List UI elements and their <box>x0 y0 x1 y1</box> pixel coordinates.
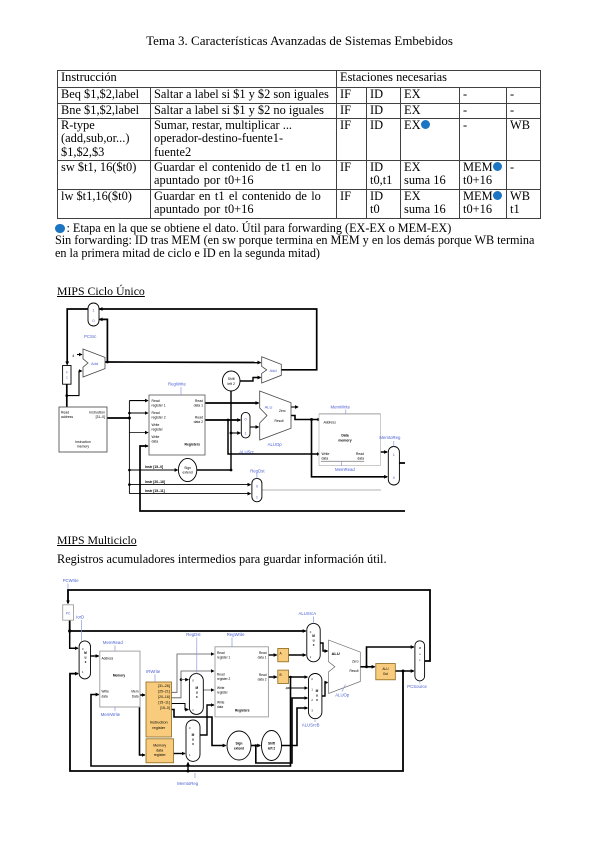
register B <box>278 670 289 683</box>
wire memory data to instruction register <box>140 694 145 696</box>
wire sign extend to ALUSrc mux input 1 <box>230 432 233 435</box>
wire read data 2 to B register <box>268 676 276 678</box>
mux MemtoReg <box>388 447 399 486</box>
svg-text:ALU: ALU <box>332 651 340 656</box>
svg-text:Instr [20–16]: Instr [20–16] <box>145 480 165 484</box>
svg-text:data: data <box>152 440 159 444</box>
mux IorD <box>79 641 90 679</box>
svg-text:4: 4 <box>72 354 74 358</box>
svg-text:x: x <box>192 742 194 746</box>
wire RegDst mux output <box>262 489 381 491</box>
svg-text:Write: Write <box>217 686 225 690</box>
svg-text:Data: Data <box>132 695 139 699</box>
wire instruction to read register 1 <box>129 400 147 402</box>
svg-text:data: data <box>102 695 108 699</box>
svg-text:MemWrite: MemWrite <box>101 712 121 717</box>
wire Zero <box>291 406 298 408</box>
svg-text:Write: Write <box>322 452 330 456</box>
svg-text:MemWrite: MemWrite <box>331 405 351 410</box>
svg-text:M: M <box>84 651 87 655</box>
svg-text:memory: memory <box>338 438 351 442</box>
svg-text:x: x <box>313 643 315 647</box>
svg-text:Instr [15–11]: Instr [15–11] <box>145 489 165 493</box>
svg-text:register: register <box>154 753 167 757</box>
wire RegDst mux to write register <box>203 689 214 691</box>
wire PC to instruction memory <box>66 384 68 407</box>
svg-text:Read: Read <box>61 411 69 415</box>
svg-text:x: x <box>85 660 87 664</box>
svg-text:Read: Read <box>259 673 267 677</box>
svg-text:Write: Write <box>217 701 225 705</box>
svg-text:M: M <box>316 689 319 693</box>
svg-text:[15–0]: [15–0] <box>160 706 170 710</box>
wire B register to ALUSrcB input 0 <box>289 676 308 678</box>
svg-text:Write: Write <box>152 435 160 439</box>
wire ALUSrc mux to ALU <box>250 426 259 428</box>
wire read data 2 to ALUSrc mux <box>205 419 240 421</box>
svg-text:address: address <box>61 415 73 419</box>
svg-text:Add: Add <box>91 361 98 366</box>
svg-text:ALUOp: ALUOp <box>268 442 283 447</box>
mux PCSrc <box>88 303 99 326</box>
oval Shift left 2 <box>262 731 282 761</box>
wire PC+4 to PCSrc mux input 0 <box>100 319 108 362</box>
wire PC to IorD mux input 0 <box>70 631 78 648</box>
svg-text:M: M <box>195 686 198 690</box>
svg-text:register 1: register 1 <box>152 403 166 407</box>
svg-text:Sign: Sign <box>184 466 191 470</box>
svg-text:Shift: Shift <box>268 742 276 746</box>
wire sign extend to shift left 2 <box>251 745 260 747</box>
oval Shift left 2 <box>222 371 240 391</box>
svg-text:extend: extend <box>234 747 244 751</box>
svg-text:MemRead: MemRead <box>335 467 355 472</box>
wire memory data register to MemtoReg mux input 1 <box>174 753 185 755</box>
svg-text:Read: Read <box>217 651 225 655</box>
register PC <box>63 366 71 385</box>
svg-text:1: 1 <box>256 496 258 500</box>
svg-text:Add: Add <box>270 368 277 373</box>
svg-text:register 2: register 2 <box>152 416 166 420</box>
svg-text:ALUSrcB: ALUSrcB <box>302 723 320 728</box>
svg-text:MemtoReg: MemtoReg <box>177 781 199 786</box>
wire shift left 2 to branch Add <box>240 378 261 382</box>
wire read data 1 to ALU <box>205 402 259 404</box>
svg-text:RegDst: RegDst <box>250 469 265 474</box>
svg-text:RegWrite: RegWrite <box>168 382 186 387</box>
wire IR 15-0 to sign extend <box>172 710 226 746</box>
wire branch target to PCSrc mux input 1 <box>100 309 317 370</box>
svg-text:u: u <box>196 691 198 695</box>
svg-text:PCWrite: PCWrite <box>63 578 80 583</box>
registers <box>215 647 268 717</box>
svg-text:[15–11]: [15–11] <box>158 701 169 705</box>
svg-text:Read: Read <box>152 399 160 403</box>
svg-text:PC: PC <box>66 611 71 615</box>
wire read data 2 to data memory write data <box>228 420 320 454</box>
mux RegDst <box>252 478 262 501</box>
ALU <box>329 640 361 693</box>
memory <box>100 651 140 707</box>
svg-text:[31–26]: [31–26] <box>158 684 170 688</box>
wire write back to registers <box>140 446 411 511</box>
svg-text:data 2: data 2 <box>258 678 267 682</box>
wire instruction 15-11 to RegDst mux input 1 <box>129 493 250 495</box>
svg-text:Memory: Memory <box>153 744 166 748</box>
svg-text:PCSource: PCSource <box>407 684 427 689</box>
mux ALUSrc <box>241 412 250 438</box>
svg-text:Instruction: Instruction <box>89 411 105 415</box>
wire ALUSrcB mux to ALU <box>322 683 328 697</box>
instruction memory <box>59 407 107 452</box>
svg-text:Read: Read <box>356 452 364 456</box>
svg-text:x: x <box>316 698 318 702</box>
svg-text:Zero: Zero <box>352 660 359 664</box>
svg-text:Write: Write <box>152 423 160 427</box>
svg-text:left 2: left 2 <box>228 382 235 386</box>
svg-text:Address: Address <box>102 657 114 661</box>
wire shift left 2 to ALUSrcB input 3 <box>282 708 308 746</box>
registers <box>149 395 205 455</box>
svg-text:Instr [15–0]: Instr [15–0] <box>145 465 163 469</box>
register PC <box>63 605 74 620</box>
wire instruction bus <box>107 417 129 419</box>
wire ALU result to PCSource mux input 0 <box>367 647 414 667</box>
svg-text:[25–21]: [25–21] <box>158 690 170 694</box>
wire ALUOut to MemtoReg mux input 0 <box>187 770 190 773</box>
mux PCSource <box>415 641 425 681</box>
wire PC output bus <box>70 620 306 631</box>
svg-text:RegWrite: RegWrite <box>227 632 245 637</box>
memory data register <box>146 739 174 763</box>
svg-text:Instruction: Instruction <box>150 720 168 725</box>
svg-text:register 2: register 2 <box>217 677 231 681</box>
wire PCSrc mux output to PC <box>67 309 88 365</box>
wire ALUOut loop to bottom <box>70 671 403 771</box>
svg-text:data: data <box>322 457 329 461</box>
wire instruction 15-0 to sign extend <box>128 469 131 472</box>
svg-text:IorD: IorD <box>76 615 84 620</box>
adder Add branch <box>262 357 282 383</box>
svg-text:Registers: Registers <box>235 709 250 713</box>
mux MemtoReg <box>186 720 200 761</box>
wire IR 15-11 to RegDst mux input 1 <box>172 704 189 710</box>
svg-text:u: u <box>85 656 87 660</box>
svg-text:M: M <box>192 733 195 737</box>
wire IR 20-16 to read register 2 <box>172 671 214 698</box>
wire memory data to memory data register <box>140 695 145 755</box>
svg-text:MemtoReg: MemtoReg <box>379 435 401 440</box>
svg-text:ALU: ALU <box>265 405 273 410</box>
wire constant 4 to ALUSrcB input 1 <box>288 687 308 689</box>
svg-text:Out: Out <box>383 672 388 676</box>
oval Sign extend <box>227 731 251 760</box>
svg-text:Address: Address <box>323 421 337 425</box>
svg-text:u: u <box>316 694 318 698</box>
wire instruction 20-16 to RegDst mux input 0 <box>128 483 131 486</box>
wire PCSource mux to PC <box>68 590 430 661</box>
svg-text:extend: extend <box>183 471 193 475</box>
svg-text:ALUOp: ALUOp <box>335 693 350 698</box>
svg-text:Write: Write <box>102 690 110 694</box>
wire ALU result to data memory address <box>291 416 320 420</box>
svg-text:Mem: Mem <box>131 690 138 694</box>
svg-text:register 1: register 1 <box>217 656 231 660</box>
adder Add PC+4 <box>83 349 105 377</box>
wire instruction to read register 2 <box>128 412 131 415</box>
svg-text:u: u <box>313 639 315 643</box>
svg-text:IRWrite: IRWrite <box>146 669 161 674</box>
mux ALUSrcA <box>307 623 320 661</box>
svg-text:data 1: data 1 <box>194 403 204 407</box>
svg-text:RegDst: RegDst <box>186 632 201 637</box>
svg-text:ALU: ALU <box>382 667 389 671</box>
svg-text:Data: Data <box>341 434 348 438</box>
svg-text:ALUSrcA: ALUSrcA <box>299 611 317 616</box>
wire sign extend to ALUSrcB input 2 <box>256 698 307 763</box>
wire ALU result to MemtoReg mux input 0 <box>312 420 388 477</box>
wire constant 4 to Add <box>77 354 82 356</box>
svg-text:Zero: Zero <box>279 409 286 413</box>
svg-text:data: data <box>357 457 364 461</box>
svg-text:PCSrc: PCSrc <box>84 334 97 339</box>
svg-text:ALUSrc: ALUSrc <box>239 449 255 454</box>
svg-text:Result: Result <box>275 419 284 423</box>
wire PC+4 to branch Add <box>107 361 260 364</box>
wire MemtoReg mux to write data <box>200 705 214 735</box>
wire IR 20-16 to RegDst mux input 0 <box>180 678 183 681</box>
svg-text:u: u <box>192 738 194 742</box>
svg-text:B: B <box>280 673 282 677</box>
svg-text:Read: Read <box>195 416 203 420</box>
svg-text:Read: Read <box>217 673 225 677</box>
instruction register <box>146 682 172 737</box>
wire ALUSrcA mux to ALU <box>320 643 327 651</box>
wire PC to Add <box>67 371 82 396</box>
svg-text:Memory: Memory <box>113 674 125 678</box>
svg-text:Sign: Sign <box>236 742 243 746</box>
wire sign extend to shift left 2 <box>197 391 231 470</box>
svg-text:left 2: left 2 <box>268 747 276 751</box>
svg-text:register: register <box>217 691 229 695</box>
svg-text:M: M <box>312 634 315 638</box>
svg-text:x: x <box>196 695 198 699</box>
ALU <box>260 391 291 440</box>
svg-text:0: 0 <box>245 418 247 422</box>
svg-text:Shift: Shift <box>228 377 235 381</box>
data memory <box>319 414 381 466</box>
svg-text:1: 1 <box>245 432 247 436</box>
svg-text:[20–16]: [20–16] <box>158 695 170 699</box>
svg-text:data 1: data 1 <box>258 656 267 660</box>
wire ALU result to ALUOut register <box>360 666 374 668</box>
wire instruction to write register <box>129 432 147 434</box>
svg-text:register: register <box>152 725 166 730</box>
svg-text:0: 0 <box>393 476 395 480</box>
wire IR 25-21 to read register 1 <box>172 654 214 692</box>
svg-text:Instruction: Instruction <box>75 440 91 444</box>
register ALUOut <box>376 664 396 680</box>
wire ALUOut to PCSource mux input 1 <box>395 670 413 672</box>
svg-text:0: 0 <box>256 485 258 489</box>
oval Sign extend <box>178 458 196 481</box>
junction PC bus <box>65 394 68 397</box>
svg-text:data: data <box>156 748 163 752</box>
svg-text:data 2: data 2 <box>194 420 204 424</box>
mux ALUSrcB <box>309 674 322 719</box>
wire read data 1 to A register <box>268 654 276 656</box>
mux RegDst <box>189 674 203 715</box>
svg-text:4: 4 <box>286 687 288 691</box>
register A <box>278 648 289 661</box>
svg-text:Read: Read <box>195 399 203 403</box>
svg-text:1: 1 <box>393 453 395 457</box>
svg-text:Read: Read <box>152 411 160 415</box>
svg-text:M: M <box>419 646 421 650</box>
svg-text:Registers: Registers <box>185 443 201 447</box>
svg-text:P: P <box>66 371 68 375</box>
svg-text:Read: Read <box>259 651 267 655</box>
svg-text:Result: Result <box>349 669 358 673</box>
wire B register to memory write data <box>91 677 291 766</box>
svg-text:MemRead: MemRead <box>103 640 123 645</box>
svg-text:memory: memory <box>77 445 90 449</box>
wire IorD mux to memory address <box>91 655 99 657</box>
svg-text:[31–0]: [31–0] <box>96 415 105 419</box>
wire read data to MemtoReg mux input 1 <box>365 451 388 453</box>
svg-text:data: data <box>217 705 223 709</box>
svg-text:register: register <box>152 428 164 432</box>
wire A register to ALUSrcA input 1 <box>289 654 306 656</box>
